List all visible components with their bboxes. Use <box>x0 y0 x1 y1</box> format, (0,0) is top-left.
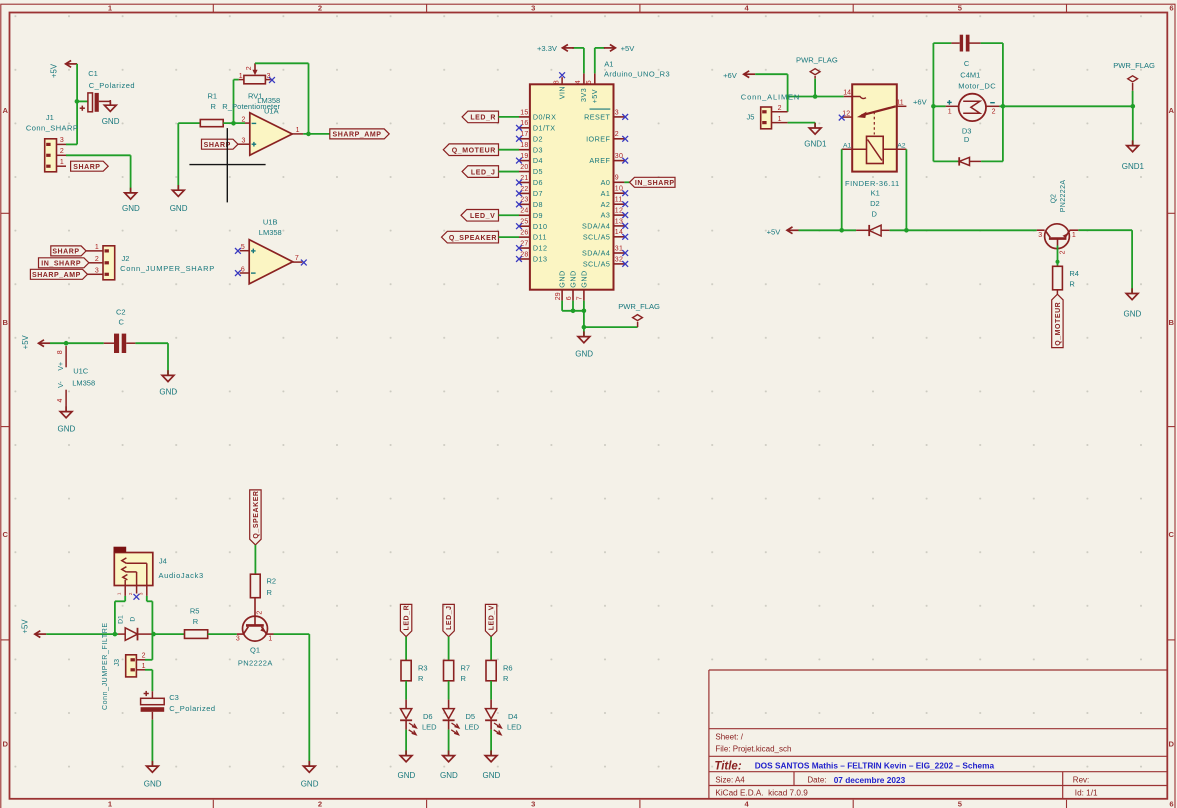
svg-text:IN_SHARP: IN_SHARP <box>41 261 81 268</box>
svg-text:07 decembre 2023: 07 decembre 2023 <box>834 775 906 785</box>
svg-text:11: 11 <box>615 197 623 204</box>
svg-text:Conn_SHARP: Conn_SHARP <box>26 124 78 133</box>
svg-text:4: 4 <box>57 398 64 402</box>
svg-text:File: Projet.kicad_sch: File: Projet.kicad_sch <box>715 745 791 754</box>
svg-text:IOREF: IOREF <box>586 134 610 143</box>
svg-text:J5: J5 <box>747 113 755 122</box>
svg-text:A: A <box>1168 106 1174 115</box>
svg-text:SDA/A4: SDA/A4 <box>582 249 610 258</box>
svg-text:1: 1 <box>239 73 243 80</box>
svg-text:GND: GND <box>122 204 140 213</box>
svg-text:D1/TX: D1/TX <box>533 123 556 132</box>
svg-text:D6: D6 <box>533 178 543 187</box>
svg-text:VIN: VIN <box>557 86 566 99</box>
svg-text:3V3: 3V3 <box>579 88 588 102</box>
svg-text:U1C: U1C <box>73 366 89 375</box>
svg-text:9: 9 <box>615 175 619 182</box>
svg-text:8: 8 <box>553 80 560 84</box>
svg-text:1: 1 <box>296 127 300 134</box>
svg-text:+5V: +5V <box>767 227 782 236</box>
svg-text:GND: GND <box>102 117 120 126</box>
svg-text:Rev:: Rev: <box>1073 775 1089 784</box>
svg-text:18: 18 <box>520 142 528 149</box>
svg-text:GND: GND <box>483 771 501 780</box>
svg-text:A1: A1 <box>601 189 611 198</box>
svg-text:+6V: +6V <box>913 98 928 107</box>
svg-text:C: C <box>2 530 8 539</box>
svg-text:PN2222A: PN2222A <box>1060 180 1067 213</box>
svg-text:D: D <box>2 740 8 749</box>
svg-text:PWR_FLAG: PWR_FLAG <box>618 302 660 311</box>
svg-text:B: B <box>1168 318 1174 327</box>
svg-text:D10: D10 <box>533 222 548 231</box>
svg-text:R5: R5 <box>190 606 200 615</box>
svg-text:Conn_JUMPER_SHARP: Conn_JUMPER_SHARP <box>120 264 215 273</box>
svg-text:7: 7 <box>577 296 584 300</box>
svg-text:D6: D6 <box>423 712 433 721</box>
svg-text:Conn_ALIMEN: Conn_ALIMEN <box>741 92 800 101</box>
svg-text:2: 2 <box>256 611 263 615</box>
svg-text:DOS SANTOS Mathis – FELTRIN Ke: DOS SANTOS Mathis – FELTRIN Kevin – EIG_… <box>755 760 995 770</box>
svg-text:LED: LED <box>465 723 480 732</box>
svg-text:R: R <box>461 674 467 683</box>
svg-text:+5V: +5V <box>590 89 599 103</box>
svg-text:6: 6 <box>241 266 245 273</box>
svg-text:FINDER-36.11: FINDER-36.11 <box>845 179 900 188</box>
svg-text:U1A: U1A <box>264 107 279 116</box>
svg-text:Id: 1/1: Id: 1/1 <box>1075 789 1098 798</box>
svg-text:2: 2 <box>318 800 322 808</box>
svg-text:D2: D2 <box>870 199 880 208</box>
svg-text:LM358: LM358 <box>257 96 280 105</box>
svg-text:AREF: AREF <box>589 156 610 165</box>
svg-text:3: 3 <box>60 137 64 144</box>
svg-text:R7: R7 <box>461 663 471 672</box>
svg-text:14: 14 <box>843 90 851 97</box>
svg-text:Date:: Date: <box>807 775 826 784</box>
svg-text:6: 6 <box>1169 3 1173 12</box>
svg-text:J3: J3 <box>114 659 121 667</box>
svg-text:D: D <box>872 210 878 219</box>
svg-text:D2: D2 <box>533 134 543 143</box>
svg-text:32: 32 <box>615 256 623 263</box>
svg-text:GND: GND <box>580 270 589 287</box>
svg-text:GND: GND <box>440 771 458 780</box>
svg-text:2: 2 <box>246 66 253 70</box>
svg-text:GND1: GND1 <box>804 140 827 149</box>
svg-text:+3.3V: +3.3V <box>537 44 558 53</box>
svg-text:PN2222A: PN2222A <box>238 659 273 668</box>
svg-text:GND: GND <box>575 350 593 359</box>
svg-text:SHARP: SHARP <box>73 164 100 171</box>
svg-text:A2: A2 <box>897 143 906 150</box>
svg-text:SHARP_AMP: SHARP_AMP <box>32 272 81 279</box>
svg-text:GND: GND <box>159 388 177 397</box>
svg-text:1: 1 <box>60 159 64 166</box>
svg-text:LM358: LM358 <box>72 379 95 388</box>
svg-text:D: D <box>130 617 137 622</box>
svg-text:PWR_FLAG: PWR_FLAG <box>796 56 838 65</box>
svg-text:SCL/A5: SCL/A5 <box>583 260 610 269</box>
svg-text:A: A <box>2 106 8 115</box>
svg-text:D9: D9 <box>533 211 543 220</box>
svg-text:LED_R: LED_R <box>404 605 411 631</box>
svg-text:J2: J2 <box>122 254 130 263</box>
svg-text:KiCad E.D.A. kicad 7.0.9: KiCad E.D.A. kicad 7.0.9 <box>715 789 808 798</box>
svg-text:6: 6 <box>1169 800 1173 808</box>
svg-text:C: C <box>964 59 970 68</box>
svg-text:R: R <box>1069 280 1075 289</box>
svg-text:15: 15 <box>520 109 528 116</box>
svg-text:2: 2 <box>992 108 996 115</box>
svg-text:LED_J: LED_J <box>471 169 496 176</box>
svg-text:GND: GND <box>170 204 188 213</box>
svg-text:GND: GND <box>144 780 162 789</box>
svg-text:10: 10 <box>615 186 623 193</box>
svg-text:12: 12 <box>615 208 623 215</box>
svg-text:R: R <box>211 102 217 111</box>
svg-text:C: C <box>119 318 125 327</box>
svg-text:C_Polarized: C_Polarized <box>169 704 215 713</box>
svg-text:Q_SPEAKER: Q_SPEAKER <box>449 235 497 242</box>
svg-text:1: 1 <box>116 592 121 595</box>
svg-text:LED_V: LED_V <box>489 605 496 630</box>
svg-text:2: 2 <box>128 592 133 595</box>
svg-text:D: D <box>964 135 970 144</box>
svg-text:+5V: +5V <box>21 334 30 349</box>
svg-text:2: 2 <box>318 3 322 12</box>
svg-text:Motor_DC: Motor_DC <box>958 82 996 91</box>
svg-text:V-: V- <box>58 381 65 388</box>
svg-text:C2: C2 <box>116 307 126 316</box>
svg-text:C1: C1 <box>88 69 98 78</box>
svg-text:14: 14 <box>615 229 623 236</box>
svg-text:3: 3 <box>95 268 99 275</box>
svg-text:LM358: LM358 <box>259 228 282 237</box>
svg-text:R: R <box>503 674 509 683</box>
svg-text:1: 1 <box>95 244 99 251</box>
svg-text:D0/RX: D0/RX <box>533 113 556 122</box>
svg-text:C_Polarized: C_Polarized <box>89 81 135 90</box>
svg-text:D: D <box>1168 740 1174 749</box>
svg-text:A2: A2 <box>601 200 611 209</box>
svg-text:24: 24 <box>520 208 528 215</box>
svg-text:C3: C3 <box>169 693 179 702</box>
svg-text:Q_MOTEUR: Q_MOTEUR <box>452 147 496 154</box>
svg-text:2: 2 <box>60 148 64 155</box>
svg-text:1: 1 <box>1072 232 1076 239</box>
svg-text:+5V: +5V <box>50 63 59 78</box>
svg-text:SCL/A5: SCL/A5 <box>583 232 610 241</box>
svg-text:20: 20 <box>520 164 528 171</box>
svg-text:J4: J4 <box>159 557 167 566</box>
svg-text:Sheet: /: Sheet: / <box>715 732 743 741</box>
svg-text:R4: R4 <box>1069 269 1079 278</box>
svg-text:GND: GND <box>58 425 76 434</box>
svg-text:3: 3 <box>236 636 240 643</box>
svg-text:D5: D5 <box>466 712 476 721</box>
svg-text:29: 29 <box>555 292 562 300</box>
svg-text:A1: A1 <box>843 143 852 150</box>
svg-text:7: 7 <box>295 255 299 262</box>
svg-text:3: 3 <box>1038 232 1042 239</box>
svg-text:31: 31 <box>615 245 623 252</box>
svg-text:5: 5 <box>241 244 245 251</box>
svg-text:1: 1 <box>268 636 272 643</box>
svg-text:R2: R2 <box>267 577 277 586</box>
svg-text:2: 2 <box>95 256 99 263</box>
svg-text:GND: GND <box>398 771 416 780</box>
svg-text:D1: D1 <box>118 615 125 624</box>
svg-text:D13: D13 <box>533 255 548 264</box>
svg-text:1: 1 <box>142 663 146 670</box>
svg-text:D11: D11 <box>533 233 547 242</box>
svg-text:GND: GND <box>569 270 578 287</box>
svg-text:3: 3 <box>615 109 619 116</box>
svg-text:30: 30 <box>615 153 623 160</box>
svg-text:Q_MOTEUR: Q_MOTEUR <box>1055 302 1062 346</box>
svg-text:6: 6 <box>566 296 573 300</box>
svg-text:C4M1: C4M1 <box>960 70 980 79</box>
svg-text:+6V: +6V <box>723 71 738 80</box>
svg-text:2: 2 <box>615 131 619 138</box>
svg-text:A1: A1 <box>604 59 613 68</box>
svg-text:C: C <box>1168 530 1174 539</box>
svg-text:1: 1 <box>948 109 952 116</box>
svg-text:A3: A3 <box>601 211 611 220</box>
svg-text:SHARP_AMP: SHARP_AMP <box>333 132 382 139</box>
svg-text:26: 26 <box>520 230 528 237</box>
svg-text:GND: GND <box>1124 310 1142 319</box>
svg-text:3: 3 <box>242 137 246 144</box>
svg-text:V+: V+ <box>58 362 65 371</box>
svg-text:GND: GND <box>301 780 319 789</box>
svg-text:+5V: +5V <box>21 619 30 634</box>
svg-text:D7: D7 <box>533 189 543 198</box>
svg-text:Q_SPEAKER: Q_SPEAKER <box>253 490 260 538</box>
svg-text:Size: A4: Size: A4 <box>715 775 745 784</box>
svg-text:2: 2 <box>142 653 146 660</box>
svg-text:AudioJack3: AudioJack3 <box>159 571 204 580</box>
svg-text:SHARP: SHARP <box>52 249 79 256</box>
svg-text:2: 2 <box>1059 250 1066 254</box>
svg-text:SDA/A4: SDA/A4 <box>582 222 610 231</box>
svg-text:Title:: Title: <box>714 761 741 773</box>
svg-text:R6: R6 <box>503 663 513 672</box>
svg-text:GND: GND <box>558 270 567 287</box>
svg-text:4: 4 <box>575 80 582 84</box>
svg-text:GND1: GND1 <box>1122 162 1145 171</box>
svg-text:A0: A0 <box>601 178 611 187</box>
svg-text:5: 5 <box>586 80 593 84</box>
svg-text:11: 11 <box>896 100 903 107</box>
svg-text:D12: D12 <box>533 244 548 253</box>
svg-text:RESET: RESET <box>584 113 610 122</box>
svg-text:U1B: U1B <box>263 217 278 226</box>
svg-text:D4: D4 <box>508 712 518 721</box>
svg-text:LED_V: LED_V <box>470 213 495 220</box>
svg-text:3: 3 <box>139 592 144 595</box>
svg-text:D3: D3 <box>533 145 543 154</box>
svg-text:D4: D4 <box>533 156 543 165</box>
svg-text:R3: R3 <box>418 663 428 672</box>
svg-text:2: 2 <box>242 117 246 124</box>
svg-text:R: R <box>193 617 199 626</box>
svg-text:PWR_FLAG: PWR_FLAG <box>1113 61 1155 70</box>
svg-text:IN_SHARP: IN_SHARP <box>635 180 675 187</box>
svg-text:R: R <box>418 674 424 683</box>
svg-text:2: 2 <box>778 105 782 112</box>
svg-text:J1: J1 <box>46 113 54 122</box>
svg-text:Q2: Q2 <box>1051 194 1058 203</box>
svg-text:R1: R1 <box>208 92 218 101</box>
svg-text:LED_J: LED_J <box>446 605 453 630</box>
svg-text:Arduino_UNO_R3: Arduino_UNO_R3 <box>604 70 670 79</box>
svg-text:Q1: Q1 <box>250 646 260 655</box>
svg-text:Conn_JUMPER_FILTRE: Conn_JUMPER_FILTRE <box>102 622 109 710</box>
svg-text:+5V: +5V <box>621 44 636 53</box>
svg-text:LED_R: LED_R <box>470 115 496 122</box>
svg-text:1: 1 <box>778 116 782 123</box>
svg-text:8: 8 <box>57 350 64 354</box>
svg-text:R: R <box>267 588 273 597</box>
svg-text:13: 13 <box>615 218 623 225</box>
svg-text:B: B <box>2 318 8 327</box>
svg-text:LED: LED <box>507 723 522 732</box>
svg-text:K1: K1 <box>871 188 880 197</box>
svg-text:D8: D8 <box>533 200 543 209</box>
svg-text:D5: D5 <box>533 167 543 176</box>
svg-text:3: 3 <box>531 3 535 12</box>
svg-text:LED: LED <box>422 723 437 732</box>
svg-text:3: 3 <box>531 800 535 808</box>
